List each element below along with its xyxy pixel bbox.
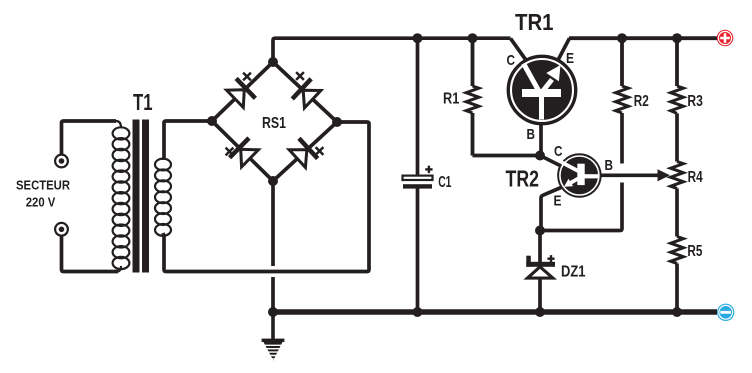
wire: TR1 collector lead from rail — [511, 38, 528, 61]
diode D4 plus mark — [316, 147, 324, 155]
diode D3 (bottom-left of RS1) — [230, 138, 260, 168]
transistor TR2 inner symbol — [562, 162, 599, 187]
terminal: SECTEUR top connector — [55, 155, 68, 168]
transistor TR1 body — [509, 57, 576, 124]
wire: R1 branch — [466, 38, 479, 155]
label: SECTEUR 220 V — [16, 177, 70, 209]
diode D2 plus mark — [296, 72, 304, 80]
potentiometer R4 wiper arrowhead — [658, 169, 671, 181]
wire: junction to R2 bottom — [540, 183, 622, 231]
svg-text:R2: R2 — [634, 93, 649, 110]
diode D3 plus mark — [226, 148, 234, 156]
wire: secondary top lead to bridge left node — [164, 121, 212, 158]
svg-text:C1: C1 — [438, 174, 451, 191]
svg-text:E: E — [566, 50, 574, 67]
wire: top rail right segment from TR1 emitter to + terminal — [569, 36, 717, 40]
node: bottom rail R5 — [672, 307, 682, 317]
diode D1 plus mark — [243, 73, 251, 81]
svg-text:SECTEUR: SECTEUR — [16, 177, 70, 192]
node: bottom rail C1 — [413, 307, 423, 317]
wire: mains live lead from top terminal to T1 primary — [62, 121, 117, 155]
wire + resistor R2 branch — [616, 38, 629, 163]
wire: TR2 emitter lead down to junction — [541, 188, 561, 231]
wire: TR1 base lead down to node — [539, 120, 543, 156]
capacitor C1 plus mark — [425, 166, 432, 173]
zener DZ1 cathode bar with hook — [526, 256, 555, 267]
node: bridge right — [332, 117, 342, 127]
svg-text:B: B — [605, 157, 614, 174]
svg-text:TR1: TR1 — [515, 9, 554, 35]
wire: C1 branch vertical — [416, 38, 420, 312]
svg-text:B: B — [527, 126, 536, 143]
capacitor C1 top plate — [403, 176, 433, 180]
transformer T1 secondary winding — [155, 158, 171, 236]
node: TR1 base / R1 / TR2 collector junction — [535, 151, 545, 161]
svg-text:E: E — [554, 193, 562, 210]
node: bottom rail ground — [268, 307, 278, 317]
svg-text:R1: R1 — [443, 91, 460, 108]
node: TR2 emitter / R2 / DZ1 junction — [535, 226, 545, 236]
svg-text:220 V: 220 V — [26, 195, 56, 210]
resistor R1 wire to TR1 base node — [473, 154, 541, 158]
wire: bridge top node up to positive rail — [273, 38, 511, 62]
svg-text:RS1: RS1 — [262, 115, 286, 132]
output terminal: negative (blue) — [717, 304, 734, 321]
svg-text:R4: R4 — [688, 169, 703, 186]
terminal: SECTEUR bottom connector — [55, 223, 68, 236]
diode D1 (top-left of RS1) — [225, 78, 255, 108]
wire: secondary bottom return to bridge right node — [163, 122, 369, 272]
node: bridge top — [268, 57, 278, 67]
ground symbol — [262, 312, 285, 361]
resistor R5 zigzag — [671, 237, 684, 313]
wire: TR2 base lead towards R4 — [600, 173, 659, 177]
capacitor C1 bottom plate — [403, 184, 432, 188]
svg-text:DZ1: DZ1 — [561, 264, 586, 281]
transistor TR1 inner symbol — [522, 64, 561, 120]
wire: mains neutral lead from bottom terminal to T1 primary — [62, 235, 119, 272]
transformer T1 core — [133, 120, 150, 273]
bridge rectifier RS1 diamond frame — [212, 62, 337, 181]
potentiometer R4 zigzag — [671, 162, 684, 237]
diode D4 (bottom-right of RS1) — [288, 138, 318, 168]
node: bottom rail DZ1 — [535, 307, 545, 317]
node: top rail C1 — [413, 33, 423, 43]
bottom ground rail — [273, 309, 717, 315]
zener DZ1 plus mark — [547, 255, 554, 262]
transistor TR2 body — [559, 155, 601, 197]
wire: TR2 collector lead from node — [540, 156, 563, 168]
node: bridge left — [207, 116, 217, 126]
svg-text:TR2: TR2 — [506, 166, 540, 192]
transformer T1 primary winding — [113, 121, 130, 272]
wire: DZ1 branch vertical — [538, 231, 542, 313]
node: top rail R1 — [468, 33, 478, 43]
wire: bridge bottom node down to ground rail (crossover gap) — [271, 181, 275, 312]
svg-text:R5: R5 — [687, 243, 702, 260]
output terminal: positive (red) — [717, 30, 734, 47]
diode D2 (top-right of RS1) — [292, 79, 322, 109]
wire: TR1 emitter lead to rail — [557, 38, 570, 62]
svg-text:C: C — [554, 143, 563, 160]
node: top rail R3 — [672, 33, 682, 43]
svg-text:R3: R3 — [687, 93, 703, 110]
node: bridge bottom — [268, 176, 278, 186]
svg-text:C: C — [507, 52, 516, 69]
wire + resistor R3 branch top — [671, 38, 684, 161]
zener DZ1 anode triangle — [527, 267, 553, 278]
svg-text:T1: T1 — [133, 89, 153, 115]
node: top rail R2 — [617, 33, 627, 43]
